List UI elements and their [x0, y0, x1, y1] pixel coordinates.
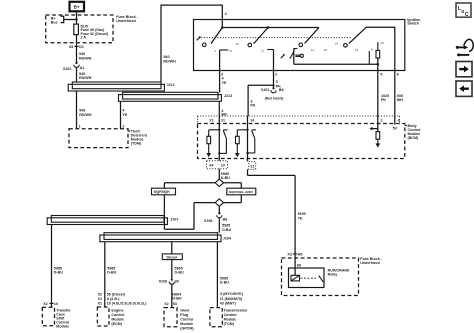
svg-text:X108: X108	[204, 219, 213, 223]
svg-text:Diesel: Diesel	[167, 255, 178, 259]
svg-text:o: o	[461, 9, 464, 15]
svg-text:YE: YE	[298, 216, 303, 220]
svg-text:(TDM): (TDM)	[131, 141, 142, 145]
svg-text:Module: Module	[56, 324, 69, 328]
svg-text:D-BU: D-BU	[222, 228, 231, 232]
svg-text:9 (MYC/MYD): 9 (MYC/MYD)	[220, 292, 243, 296]
svg-text:RD/WH: RD/WH	[79, 56, 92, 60]
svg-text:Transmission: Transmission	[224, 309, 247, 313]
svg-text:D-BU: D-BU	[172, 297, 181, 301]
svg-text:X1: X1	[98, 301, 102, 305]
svg-text:B: B	[230, 49, 232, 53]
svg-text:39: 39	[175, 280, 179, 284]
svg-text:14: 14	[250, 118, 254, 122]
svg-text:Module: Module	[111, 317, 124, 321]
svg-text:PK: PK	[381, 98, 386, 102]
svg-text:Engine: Engine	[111, 308, 123, 312]
svg-text:(Not Used): (Not Used)	[265, 96, 284, 100]
svg-text:WH: WH	[397, 98, 403, 102]
svg-text:1: 1	[79, 124, 81, 128]
svg-text:Plug: Plug	[180, 313, 188, 317]
svg-text:X6: X6	[69, 45, 73, 49]
svg-text:53: 53	[173, 302, 177, 306]
svg-text:14: 14	[355, 48, 359, 52]
svg-text:X2: X2	[98, 292, 102, 296]
svg-text:6: 6	[397, 73, 399, 77]
svg-text:(TCM): (TCM)	[224, 322, 235, 326]
svg-text:56 (Diesel): 56 (Diesel)	[107, 292, 126, 296]
svg-text:Underhood: Underhood	[360, 261, 379, 265]
svg-text:(ECM): (ECM)	[111, 322, 122, 326]
svg-text:10: 10	[54, 302, 58, 306]
svg-text:RD/WH: RD/WH	[79, 113, 92, 117]
svg-text:2: 2	[275, 73, 277, 77]
svg-text:RD/WH: RD/WH	[79, 76, 92, 80]
svg-text:X2: X2	[43, 302, 47, 306]
svg-text:D-BU: D-BU	[107, 271, 116, 275]
svg-text:B6: B6	[279, 88, 284, 92]
svg-text:X1: X1	[209, 118, 213, 122]
svg-text:10: 10	[380, 41, 384, 45]
svg-text:11 (M30/M70): 11 (M30/M70)	[220, 297, 243, 301]
svg-text:B8: B8	[223, 217, 228, 221]
svg-text:Module: Module	[180, 322, 193, 326]
svg-text:19: 19	[221, 164, 225, 168]
svg-text:Glow: Glow	[180, 308, 189, 312]
svg-text:C: C	[465, 12, 469, 18]
svg-text:X201: X201	[63, 67, 72, 71]
svg-text:D-BU: D-BU	[54, 271, 63, 275]
svg-text:Switch: Switch	[407, 22, 419, 26]
svg-text:A1: A1	[80, 66, 85, 70]
svg-text:Underhood: Underhood	[116, 19, 135, 23]
svg-text:15: 15	[324, 48, 328, 52]
svg-text:B+: B+	[74, 4, 80, 9]
svg-text:Control: Control	[224, 313, 237, 317]
svg-text:10: 10	[236, 42, 240, 46]
svg-text:YE: YE	[122, 113, 127, 117]
svg-text:21: 21	[250, 164, 254, 168]
svg-text:11: 11	[261, 49, 264, 53]
svg-text:10: 10	[335, 42, 339, 46]
svg-text:-NQF/NQH-+MDX: -NQF/NQH-+MDX	[228, 190, 254, 194]
svg-text:21: 21	[221, 118, 225, 122]
svg-text:(BCM): (BCM)	[408, 136, 420, 140]
svg-text:43 (MW7): 43 (MW7)	[220, 302, 237, 306]
svg-text:D-BU: D-BU	[221, 176, 230, 180]
svg-text:X4: X4	[209, 164, 213, 168]
svg-text:2: 2	[381, 118, 383, 122]
svg-text:J212: J212	[167, 83, 175, 87]
svg-text:X3: X3	[287, 253, 291, 257]
svg-text:YE: YE	[222, 81, 227, 85]
svg-text:2: 2	[122, 124, 124, 128]
svg-text:J213: J213	[224, 94, 232, 98]
svg-text:J104: J104	[223, 236, 231, 240]
svg-text:X108: X108	[159, 280, 168, 284]
svg-text:X201: X201	[261, 88, 270, 92]
svg-text:D1: D1	[79, 45, 84, 49]
svg-text:Control: Control	[180, 317, 193, 321]
svg-text:J207: J207	[170, 217, 178, 221]
svg-text:Module: Module	[224, 318, 237, 322]
svg-text:Relay: Relay	[328, 272, 338, 276]
svg-text:86: 86	[297, 264, 301, 268]
svg-text:4: 4	[398, 118, 400, 122]
svg-text:X1: X1	[98, 297, 102, 301]
svg-text:H5: H5	[298, 253, 303, 257]
svg-text:Bus: Bus	[51, 21, 58, 25]
svg-text:RD/WH: RD/WH	[163, 60, 176, 64]
svg-text:18 (4.8L/5.3L/6.0L/6.2L): 18 (4.8L/5.3L/6.0L/6.2L)	[107, 301, 147, 305]
svg-text:14: 14	[311, 48, 315, 52]
svg-text:Control: Control	[111, 313, 124, 317]
svg-text:540: 540	[163, 55, 169, 59]
svg-text:D-BU: D-BU	[220, 281, 229, 285]
svg-text:X2: X2	[164, 302, 168, 306]
svg-text:8 (4.3L): 8 (4.3L)	[107, 297, 121, 301]
svg-text:5: 5	[380, 73, 382, 77]
svg-text:D-BU: D-BU	[175, 271, 184, 275]
svg-text:(GPCM): (GPCM)	[180, 326, 194, 330]
svg-text:PK: PK	[250, 104, 255, 108]
svg-text:4: 4	[225, 12, 227, 16]
svg-text:NQF/NQH: NQF/NQH	[154, 190, 170, 194]
svg-text:2 A: 2 A	[81, 36, 87, 40]
svg-text:5V: 5V	[393, 127, 398, 131]
